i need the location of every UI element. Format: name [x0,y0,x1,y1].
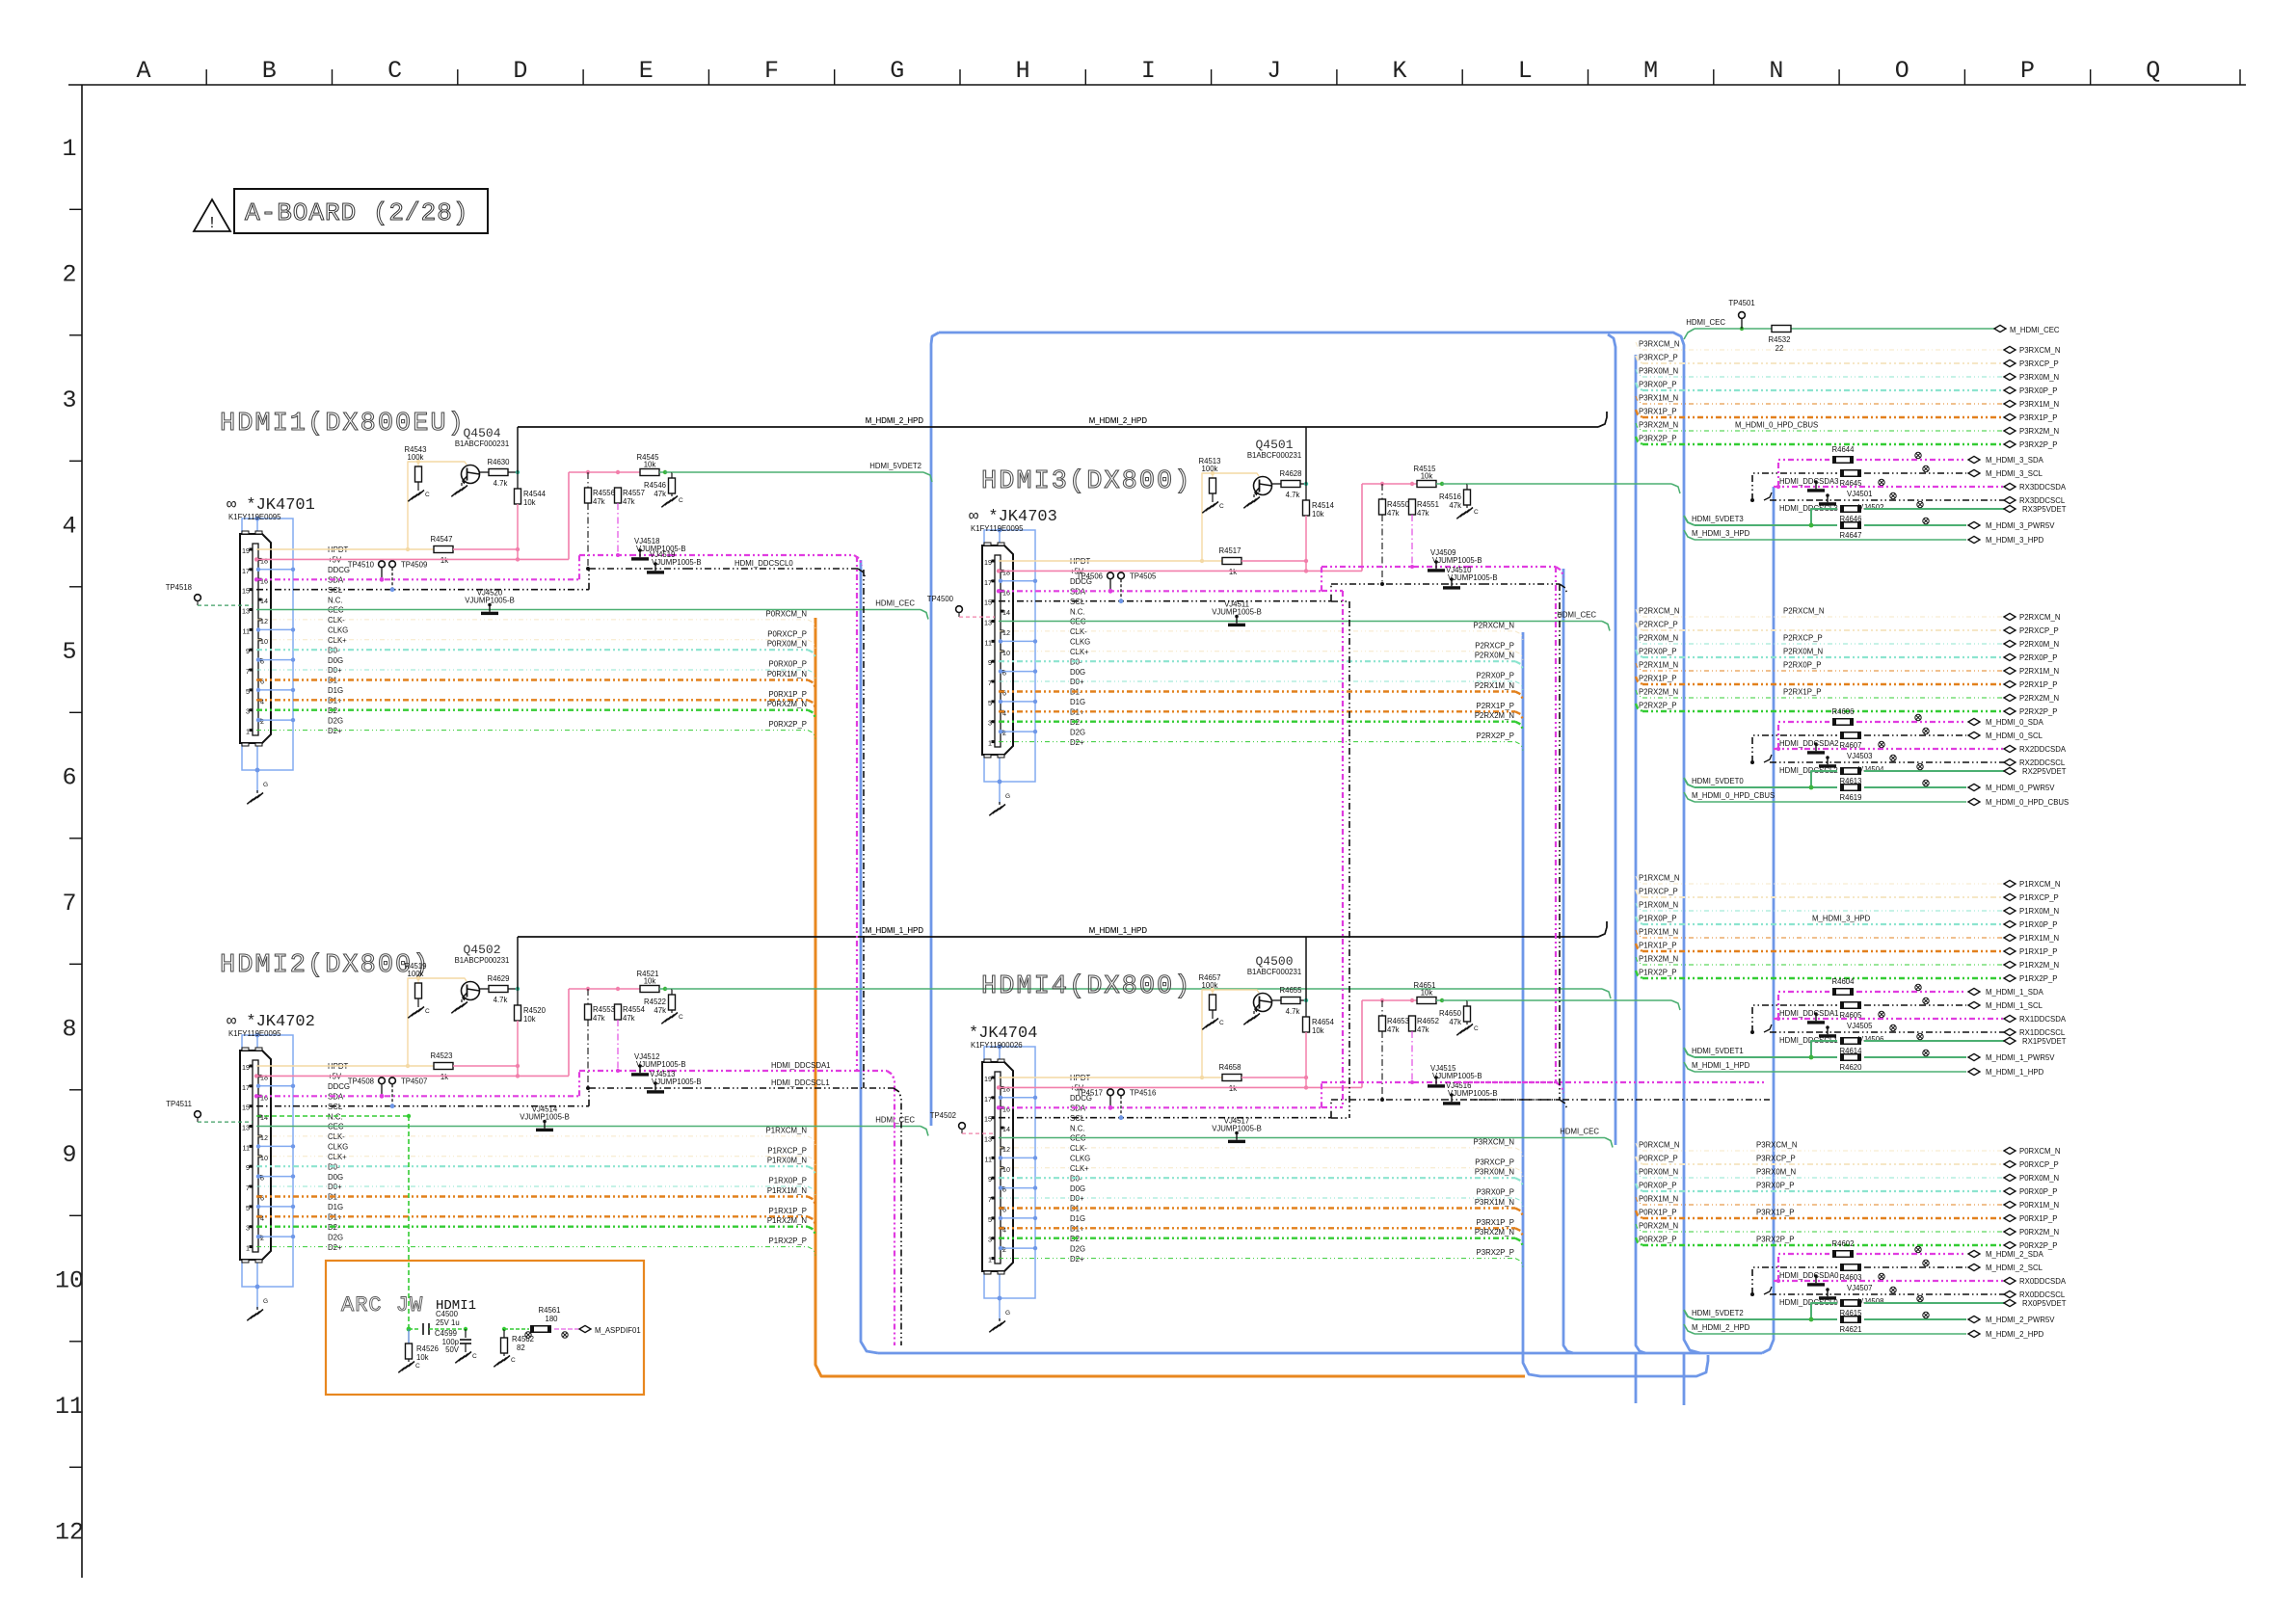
test point TP4516 [1118,1088,1157,1120]
svg-text:R4553: R4553 [593,1005,615,1014]
svg-text:G: G [263,1298,268,1305]
svg-text:47k: 47k [1449,501,1461,510]
svg-text:P0RXCM_N: P0RXCM_N [1639,1141,1679,1150]
svg-text:10k: 10k [523,498,536,507]
svg-text:P2RX1P_P: P2RX1P_P [1477,702,1514,710]
svg-text:TP4502: TP4502 [930,1111,956,1120]
resistor R4523 1k [408,1051,520,1081]
svg-text:DDCG: DDCG [328,566,350,574]
svg-text:P3RX0P_P: P3RX0P_P [1639,381,1676,389]
svg-text:Q4502: Q4502 [463,943,500,957]
svg-text:TP4517: TP4517 [1077,1088,1103,1097]
svg-text:9: 9 [988,1175,992,1184]
svg-text:100k: 100k [1202,981,1218,990]
svg-text:10: 10 [55,1267,84,1295]
svg-text:CLKG: CLKG [1070,1155,1090,1163]
svg-text:B1ABCF000231: B1ABCF000231 [1247,968,1301,976]
svg-text:13: 13 [242,607,250,616]
ground R4657 [1202,1016,1224,1029]
svg-text:N: N [1769,57,1783,85]
svg-text:6: 6 [1002,1206,1006,1214]
svg-text:10k: 10k [1421,989,1433,998]
wire HDMI_CEC HDMI4(DX800) [999,1128,1613,1148]
wire +5V HDMI3(DX800) [997,484,1362,573]
capacitor C4500 25V 1u [409,1310,466,1335]
svg-text:P3RX2P_P: P3RX2P_P [1756,1236,1794,1244]
resistor R4628 4.7k [1271,469,1308,499]
bus blue main left vertical [931,333,939,1126]
ground R4522 [661,1010,683,1024]
svg-text:P0RX0M_N: P0RX0M_N [767,640,807,649]
svg-text:HDMI_CEC: HDMI_CEC [1557,611,1596,620]
svg-text:M_HDMI_3_PWR5V: M_HDMI_3_PWR5V [1986,521,2055,530]
svg-text:R4653: R4653 [1387,1017,1409,1025]
svg-text:10k: 10k [644,461,656,469]
svg-text:6: 6 [1002,689,1006,698]
svg-text:VJ4505: VJ4505 [1847,1022,1873,1030]
wire +5V rail HDMI3(DX800) [1362,482,1417,486]
svg-text:7: 7 [246,1184,250,1192]
svg-text:17: 17 [984,1095,992,1104]
svg-text:M_HDMI_3_SCL: M_HDMI_3_SCL [1986,469,2043,478]
svg-text:R4630: R4630 [488,458,511,466]
svg-text:R4551: R4551 [1417,500,1439,509]
wire +5V HDMI4(DX800) [997,1000,1362,1090]
wire HDMI4(DX800) [1482,1100,1567,1110]
wire SCL HDMI3(DX800) [999,584,1442,601]
resistor R4651 10k [1414,981,1445,1004]
svg-text:P3RXCM_N: P3RXCM_N [2019,346,2060,355]
connector *JK4704 shield stubs [999,1096,1037,1251]
wire SDA cont HDMI4(DX800) [1467,1082,1563,1093]
wire/terminal P0RXCP_P [1636,1155,2059,1170]
svg-text:VJUMP1005-B: VJUMP1005-B [1448,573,1498,582]
jumper VJ4505 / terminal RX1DDCSDA [1774,1009,2067,1030]
svg-text:P1RXCP_P: P1RXCP_P [2019,893,2059,902]
svg-text:R4546: R4546 [644,481,666,490]
svg-text:RX0DDCSDA: RX0DDCSDA [2019,1277,2067,1286]
svg-text:HDMI_5VDET2: HDMI_5VDET2 [1692,1309,1744,1317]
svg-text:10: 10 [1002,1165,1010,1174]
ground R4546 [661,493,683,507]
svg-text:TP4506: TP4506 [1077,572,1103,580]
svg-text:R4650: R4650 [1439,1009,1462,1018]
svg-text:M_HDMI_1_SDA: M_HDMI_1_SDA [1986,988,2044,997]
svg-text:N.C.: N.C. [1070,1124,1085,1132]
svg-text:47k: 47k [623,1014,635,1023]
svg-text:1: 1 [246,728,250,736]
svg-text:RX2P5VDET: RX2P5VDET [2022,767,2067,776]
connector label *JK4701 [227,496,315,521]
connector *JK4701 shield stubs [256,568,295,723]
svg-text:HDMI_CEC: HDMI_CEC [1560,1128,1599,1136]
wire M_HDMI_0_HPD vertical [1305,427,1307,484]
connector *JK4703 shield stubs [999,579,1037,734]
svg-text:6: 6 [62,764,76,792]
resistor R4554 47k [615,1004,646,1073]
svg-text:16: 16 [260,576,268,585]
wire M_HDMI_1_HPD horizontal [518,921,1607,937]
svg-text:11: 11 [985,1155,992,1163]
svg-text:RX2DDCSDA: RX2DDCSDA [2019,745,2067,754]
wire HDMI_CEC HDMI2(DX800) [256,1116,928,1136]
svg-text:P2RX0M_N: P2RX0M_N [1475,652,1514,660]
svg-text:R4532: R4532 [1769,335,1791,344]
svg-text:F: F [764,57,779,85]
svg-text:P3RX2M_N: P3RX2M_N [1639,421,1678,430]
svg-text:10: 10 [1002,649,1010,657]
bus blue P2RX/P3RX vertical [1523,632,1708,1376]
svg-text:1k: 1k [1229,1084,1237,1093]
svg-text:HDMI2(DX800): HDMI2(DX800) [220,951,430,980]
svg-text:P2RX2P_P: P2RX2P_P [1639,702,1676,710]
wire/terminal M_HDMI_0_HPD_CBUS [1684,791,2069,807]
svg-text:Q4501: Q4501 [1255,438,1293,452]
data lane wires HDMI4(DX800) [999,1137,1523,1266]
resistor R4613 / terminal RX2P5VDET [1811,763,2067,787]
svg-text:R4547: R4547 [431,535,453,544]
jumper VJ4511 VJUMP1005-B [1212,600,1262,627]
svg-text:R4523: R4523 [431,1051,453,1060]
svg-text:47k: 47k [654,1006,666,1015]
svg-text:15: 15 [984,599,992,607]
svg-text:47k: 47k [623,497,635,506]
test point TP4506 [1077,572,1114,593]
svg-text:1: 1 [246,1244,250,1253]
svg-text:P0RX0P_P: P0RX0P_P [2019,1187,2057,1196]
svg-text:15: 15 [242,1104,250,1112]
svg-text:1: 1 [988,1256,992,1264]
wire DDC SCL link HDMI3-HDMI4 [1559,584,1561,1100]
connector *JK4702 shield box [242,1033,293,1303]
svg-text:P1RX1M_N: P1RX1M_N [2019,934,2059,943]
svg-text:CLKG: CLKG [328,626,348,635]
svg-text:TP4500: TP4500 [927,595,954,603]
wire DDC SDA link HDMI1-HDMI2 [857,556,894,1345]
svg-text:R4516: R4516 [1439,492,1461,501]
svg-text:3: 3 [988,719,992,728]
connector *JK4701 body [240,531,271,746]
svg-text:3: 3 [988,1236,992,1244]
wire SDA HDMI2(DX800) [254,1071,630,1099]
svg-text:P3RXCP_P: P3RXCP_P [1639,354,1678,362]
wire/terminal P1RX0P_P [1636,915,2057,930]
svg-text:HDMI_5VDET1: HDMI_5VDET1 [1692,1047,1744,1055]
jumper VJ4515 VJUMP1005-B [1427,1064,1482,1088]
svg-text:47k: 47k [1417,509,1429,518]
svg-text:VJUMP1005-B: VJUMP1005-B [652,1078,702,1086]
svg-text:R4554: R4554 [623,1005,646,1014]
svg-text:C: C [1474,509,1479,516]
wire +5V rail HDMI1(DX800EU) [569,470,640,474]
svg-text:L: L [1518,57,1533,85]
wire HDMI_5VDET3 / resistor R4647 / terminal M_HDMI_3_PWR5V [1684,515,2055,540]
svg-text:HDMI_DDCSDA2: HDMI_DDCSDA2 [1779,739,1839,748]
svg-text:R4644: R4644 [1832,445,1855,454]
svg-text:50V: 50V [445,1345,460,1354]
svg-text:D0+: D0+ [328,1183,342,1191]
ground R4543 [408,488,430,501]
svg-text:C: C [425,1008,430,1015]
svg-text:I: I [1141,57,1156,85]
svg-text:HDMI4(DX800): HDMI4(DX800) [981,972,1191,1001]
svg-text:VJUMP1005-B: VJUMP1005-B [520,1113,570,1122]
resistor R4557 47k [615,488,645,557]
wire/terminal P3RX2P_P [1636,435,2057,450]
svg-text:P3RX1P_P: P3RX1P_P [1756,1209,1794,1217]
wire HPDT HDMI2(DX800) [256,978,467,1068]
svg-text:RX1P5VDET: RX1P5VDET [2022,1037,2067,1046]
svg-text:P3RX1P_P: P3RX1P_P [1639,408,1676,416]
svg-text:47k: 47k [1387,509,1400,518]
resistor R4556 47k [585,472,615,571]
wire HDMI_DDCSCL0 HDMI1(DX800EU) [686,559,866,579]
svg-text:R4606: R4606 [1832,707,1855,716]
svg-text:10k: 10k [1421,472,1433,481]
svg-text:4.7k: 4.7k [1286,491,1300,499]
svg-text:C: C [511,1357,516,1364]
svg-text:M_HDMI_1_HPD: M_HDMI_1_HPD [1692,1061,1750,1070]
sheet title box A-BOARD (2/28) [234,189,488,233]
svg-text:R4629: R4629 [488,974,510,983]
svg-text:15: 15 [984,1115,992,1124]
ARC JW title [341,1293,476,1317]
svg-text:P0RX1P_P: P0RX1P_P [769,690,807,699]
jumper VJ4509 VJUMP1005-B [1427,548,1482,572]
svg-text:CLK+: CLK+ [328,636,347,645]
svg-text:P0RX2M_N: P0RX2M_N [2019,1228,2059,1237]
svg-text:R4522: R4522 [644,998,666,1006]
svg-text:D1G: D1G [1070,1214,1085,1223]
svg-text:13: 13 [242,1124,250,1132]
svg-text:47k: 47k [1449,1018,1461,1026]
jumper VJ4516 VJUMP1005-B [1442,1081,1498,1105]
resistor R4547 1k [408,535,520,565]
svg-text:13: 13 [984,619,992,627]
connector *JK4703 pins 1-19 [984,558,1010,748]
ground R4513 [1202,499,1224,513]
svg-text:P3RX0P_P: P3RX0P_P [1756,1182,1794,1190]
svg-text:K1FY119E0095: K1FY119E0095 [228,513,281,521]
svg-text:M_HDMI_2_HPD: M_HDMI_2_HPD [866,416,924,425]
wire/terminal P2RX2M_N [1636,688,2059,704]
svg-text:47k: 47k [654,490,666,498]
svg-text:7: 7 [62,890,76,918]
svg-text:P0RX1M_N: P0RX1M_N [1639,1195,1678,1204]
svg-text:CLK-: CLK- [1070,1144,1087,1153]
svg-text:M_HDMI_0_PWR5V: M_HDMI_0_PWR5V [1986,784,2055,792]
svg-text:M_HDMI_3_SDA: M_HDMI_3_SDA [1986,456,2044,465]
svg-text:19: 19 [984,558,992,567]
resistor R4561 180 [504,1306,578,1338]
connector label *JK4704 [969,1024,1037,1050]
resistor R4644 / terminal M_HDMI_3_SDA [1778,445,2044,487]
svg-text:P1RX2P_P: P1RX2P_P [2019,974,2057,983]
svg-text:CLK-: CLK- [1070,627,1087,636]
wire HDMI_5VDET2 / resistor R4621 / terminal M_HDMI_2_PWR5V [1684,1309,2055,1334]
svg-text:D2+: D2+ [328,727,342,735]
svg-text:P3RX0P_P: P3RX0P_P [2019,386,2057,395]
resistor R4551 47k [1409,499,1439,569]
svg-text:1: 1 [988,739,992,748]
svg-text:P2RXCP_P: P2RXCP_P [1783,634,1823,643]
wire HDMI_DDCSCL1 HDMI2(DX800) [686,1078,901,1099]
svg-text:R4544: R4544 [523,490,547,498]
svg-text:P3RX1M_N: P3RX1M_N [2019,400,2059,409]
svg-text:P0RX1M_N: P0RX1M_N [2019,1201,2059,1210]
net label P3RX1P_P [1756,1209,1794,1217]
svg-text:VJUMP1005-B: VJUMP1005-B [1432,556,1482,565]
svg-text:VJUMP1005-B: VJUMP1005-B [1432,1072,1482,1080]
bus orange P0RX/P1RX vertical [815,618,1525,1376]
section title HDMI2(DX800) [220,951,430,980]
svg-text:RX3DDCSCL: RX3DDCSCL [2019,496,2066,505]
svg-text:P0RX2P_P: P0RX2P_P [769,720,807,729]
svg-text:K1FY119E0095: K1FY119E0095 [228,1029,281,1038]
svg-text:TP4505: TP4505 [1130,572,1157,580]
svg-text:100k: 100k [408,453,424,462]
jumper VJ4517 VJUMP1005-B [1212,1117,1262,1144]
svg-text:RX1DDCSDA: RX1DDCSDA [2019,1015,2067,1024]
svg-text:19: 19 [242,546,250,555]
svg-text:P2RX2M_N: P2RX2M_N [1475,711,1514,720]
svg-text:HDMI_DDCSDA1: HDMI_DDCSDA1 [771,1061,831,1070]
svg-text:P3RX1M_N: P3RX1M_N [1639,394,1678,403]
svg-text:R4620: R4620 [1840,1063,1863,1072]
resistor R4553 47k [585,989,615,1090]
svg-text:P2RXCP_P: P2RXCP_P [2019,626,2059,635]
svg-text:P0RX1M_N: P0RX1M_N [767,670,807,678]
svg-text:TP4511: TP4511 [166,1100,192,1108]
svg-text:DDCG: DDCG [328,1082,350,1091]
svg-text:P2RX0M_N: P2RX0M_N [1783,648,1823,656]
svg-text:P1RX0P_P: P1RX0P_P [1639,915,1676,923]
svg-text:Q4504: Q4504 [463,426,500,440]
svg-text:K1FY119E0095: K1FY119E0095 [971,524,1024,533]
svg-text:R4514: R4514 [1312,501,1335,510]
resistor R4655 4.7k [1271,986,1308,1016]
resistor R4604 / terminal M_HDMI_1_SDA [1778,977,2044,1019]
svg-text:R4517: R4517 [1219,546,1241,555]
svg-text:1k: 1k [441,556,448,565]
terminal M_HDMI_CEC [1994,325,2060,334]
svg-text:M_HDMI_0_HPD_CBUS: M_HDMI_0_HPD_CBUS [1986,798,2069,807]
svg-text:7: 7 [246,667,250,676]
resistor R4515 10k [1414,465,1445,488]
wire/terminal P2RXCP_P [1636,621,2059,636]
test point TP4505 [1118,572,1157,603]
svg-text:CLK+: CLK+ [1070,648,1089,656]
wire HDMI_5VDET1 [672,989,1611,998]
svg-text:P2RX2M_N: P2RX2M_N [1639,688,1678,697]
svg-text:ARC JW: ARC JW [341,1293,423,1317]
svg-text:P3RXCP_P: P3RXCP_P [2019,359,2059,368]
wire DDC SDA HDMI4 to bus [1455,1081,1766,1083]
svg-text:D0+: D0+ [1070,1194,1084,1203]
svg-text:P2RX1M_N: P2RX1M_N [1639,661,1678,670]
test point TP4509 [389,560,428,592]
svg-text:VJ4506: VJ4506 [1858,1035,1883,1044]
svg-text:2: 2 [62,261,76,289]
resistor R4658 1k [1202,1063,1308,1093]
wire SCL HDMI2(DX800) [256,1088,646,1106]
svg-text:P1RXCM_N: P1RXCM_N [2019,880,2060,889]
svg-text:5: 5 [988,699,992,707]
svg-text:P3RX1M_N: P3RX1M_N [1475,1198,1514,1207]
svg-text:G: G [890,57,904,85]
svg-text:VJUMP1005-B: VJUMP1005-B [1212,1125,1262,1133]
svg-text:TP4510: TP4510 [348,560,375,569]
svg-text:D0G: D0G [328,656,343,665]
ground *JK4704 [989,1310,1010,1332]
svg-text:R4526: R4526 [416,1344,439,1353]
svg-text:P0RX2P_P: P0RX2P_P [2019,1241,2057,1250]
svg-text:D2G: D2G [328,1233,343,1241]
svg-text:100k: 100k [408,970,424,978]
svg-text:HDMI_CEC: HDMI_CEC [1686,318,1725,327]
svg-text:P1RXCM_N: P1RXCM_N [766,1126,807,1134]
svg-text:HDMI_DDCSDA1: HDMI_DDCSDA1 [1779,1009,1839,1018]
connector *JK4704 shield box [984,1045,1035,1315]
svg-text:M_HDMI_1_PWR5V: M_HDMI_1_PWR5V [1986,1053,2055,1062]
svg-text:10: 10 [260,637,268,646]
svg-text:11: 11 [243,626,250,635]
svg-text:9: 9 [62,1141,76,1169]
wire/terminal P1RX1M_N [1636,928,2059,944]
wire M_HDMI_2_HPD vertical [517,427,519,472]
svg-text:VJ4501: VJ4501 [1847,490,1872,498]
svg-text:VJ4504: VJ4504 [1858,765,1884,774]
jumper VJ4514 VJUMP1005-B [520,1105,570,1132]
svg-text:RX0DDCSCL: RX0DDCSCL [2019,1290,2066,1299]
svg-text:47k: 47k [593,1014,605,1023]
resistor R4546 47k [644,472,675,498]
section title HDMI3(DX800) [981,467,1191,496]
svg-text:M_HDMI_1_SCL: M_HDMI_1_SCL [1986,1001,2043,1010]
wire/terminal P0RX2M_N [1636,1222,2059,1237]
wire/terminal P0RX0M_N [1636,1168,2059,1184]
wire M_HDMI_2_HPD horizontal [518,412,1607,427]
svg-text:47k: 47k [1417,1025,1429,1034]
ground Q4500 emitter [1243,1011,1260,1024]
ground Q4501 emitter [1243,494,1260,508]
net label P3RXCP_P [1756,1155,1796,1163]
svg-text:M_HDMI_0_SDA: M_HDMI_0_SDA [1986,718,2044,727]
wire DDC SDA row link HDMI3-HDMI4 [1322,591,1343,1107]
ground Q4504 emitter [451,483,467,496]
svg-text:P3RXCP_P: P3RXCP_P [1475,1157,1514,1166]
svg-text:P1RX2M_N: P1RX2M_N [2019,961,2059,970]
svg-text:100k: 100k [1202,465,1218,473]
wire/terminal P2RX0P_P [1636,648,2057,663]
svg-text:D2G: D2G [328,716,343,725]
resistor R4543 100k [405,445,427,488]
resistor R4645 / terminal M_HDMI_3_SCL [1752,466,2043,500]
svg-text:P2RXCM_N: P2RXCM_N [2019,613,2060,622]
connector *JK4702 pin names [328,1062,350,1252]
resistor R4522 47k [644,989,675,1015]
svg-text:P2RXCM_N: P2RXCM_N [1474,621,1514,629]
svg-text:P2RX2P_P: P2RX2P_P [2019,707,2057,716]
svg-text:6: 6 [260,1194,264,1203]
wire SDA HDMI1(DX800EU) [254,555,630,582]
connector *JK4703 shield box [984,528,1035,798]
wire/terminal M_HDMI_1_HPD [1684,1061,2044,1077]
jumper VJ4504 / terminal RX2DDCSCL [1750,755,2066,775]
transistor Q4500 B1ABCF000231 [1247,954,1301,1012]
svg-text:4.7k: 4.7k [1286,1007,1300,1016]
wire/terminal P1RX2M_N [1636,955,2059,971]
